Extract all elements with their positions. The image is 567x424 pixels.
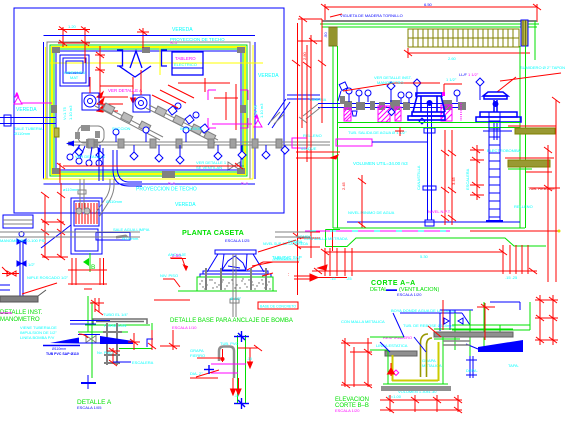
red dims B-B left	[341, 338, 372, 388]
bottom water line	[347, 221, 520, 223]
red dim inside right wall	[235, 84, 237, 130]
svg-text:VOLUMEN UTIL=34.00 m3: VOLUMEN UTIL=34.00 m3	[353, 161, 408, 166]
svg-text:1 1/2": 1 1/2"	[468, 72, 479, 77]
pump1 red riser	[89, 77, 91, 93]
center shaft gray	[232, 254, 234, 317]
right wall pass band lower (rebose)	[505, 158, 554, 172]
magenta pedestal 3	[395, 107, 401, 121]
blue manifold oval	[78, 126, 104, 143]
gray fittings on pipe	[340, 96, 466, 110]
svg-text::: :	[288, 272, 289, 278]
svg-text:ESCALA 1/10: ESCALA 1/10	[172, 325, 197, 330]
svg-text:ESCALERA: ESCALERA	[465, 168, 470, 190]
svg-text:NIV. PISO: NIV. PISO	[160, 273, 178, 278]
svg-text:VER DETALLE 1: VER DETALLE 1	[75, 154, 106, 159]
svg-text:LINEA ESTATICA: LINEA ESTATICA	[376, 343, 408, 348]
svg-text:SUMIDERO Ø 2" TAPON: SUMIDERO Ø 2" TAPON	[520, 65, 565, 70]
blue bracket right	[147, 339, 153, 347]
tank walls yellow	[392, 342, 439, 381]
magenta fragment left	[0, 312, 12, 314]
svg-text:.15: .15	[247, 357, 252, 361]
manometer detail pipe	[17, 232, 26, 297]
svg-text:MANOMETRO: MANOMETRO	[377, 80, 403, 85]
svg-text:.15: .15	[330, 276, 336, 281]
yellow datum drop left	[159, 47, 161, 75]
stemmed valves blue	[338, 78, 484, 103]
svg-text:DIA. 2": DIA. 2"	[190, 371, 203, 376]
svg-text:1.10 m3: 1.10 m3	[68, 105, 73, 120]
detail A green frame verticals	[78, 296, 150, 378]
red line right of band	[508, 125, 556, 127]
svg-text:MAT: MAT	[70, 75, 79, 80]
bottom-left appendage box	[3, 215, 33, 228]
grating band	[408, 29, 519, 47]
manometer base tick	[38, 290, 46, 296]
svg-text:ø110mm: ø110mm	[63, 187, 79, 192]
magenta A marker mid	[254, 115, 262, 127]
svg-text:TAPA.: TAPA.	[508, 363, 519, 368]
boya leader blue	[400, 312, 462, 314]
svg-text:VIGUETA DE MADERA TORNILLO: VIGUETA DE MADERA TORNILLO	[340, 13, 403, 18]
svg-text:IMPULSION: IMPULSION	[180, 126, 202, 131]
blue upper pipe	[70, 320, 110, 322]
blue cross left	[204, 365, 214, 374]
vereda blue verticals	[43, 42, 45, 179]
grating dim	[404, 48, 530, 58]
svg-text:Ø110mm: Ø110mm	[14, 131, 31, 136]
door swing triangle	[130, 51, 142, 68]
red vertical at slab left	[332, 230, 334, 251]
svg-text:Ø110mm: Ø110mm	[52, 347, 66, 351]
svg-text:5.30: 5.30	[420, 254, 429, 259]
svg-text:.15 .25: .15 .25	[505, 275, 518, 280]
door jamb right	[162, 50, 168, 66]
red dims B-B bottom	[380, 395, 462, 413]
svg-text:CON MALLA METALICA: CON MALLA METALICA	[341, 319, 385, 324]
right roof column hatched	[521, 20, 528, 46]
svg-text:SALE AGUA LIMPIA: SALE AGUA LIMPIA	[113, 227, 150, 232]
manometer leader red	[22, 283, 57, 294]
svg-text:TUBO EL 1/4": TUBO EL 1/4"	[103, 312, 129, 317]
main blue header pipe	[318, 104, 465, 108]
blue benchmark bottom	[234, 398, 249, 409]
magenta tick	[442, 92, 445, 96]
elbow hatch	[270, 112, 284, 124]
blue benchmark top	[234, 331, 249, 342]
tapa gray bar	[93, 319, 147, 324]
left tank wall green pair	[332, 46, 334, 228]
B arrow below chamber	[68, 253, 107, 289]
ground line green	[178, 290, 277, 292]
left roof column hatched	[329, 27, 337, 46]
hydro tank outer	[60, 55, 89, 86]
pipes down to chamber	[99, 148, 142, 186]
svg-text:VEREDA: VEREDA	[258, 73, 279, 79]
main header pipe	[68, 139, 330, 148]
central pump assembly	[408, 93, 445, 120]
left red dim column outside	[41, 183, 68, 260]
magenta marker in tank	[393, 370, 398, 375]
red dim cluster right of tank	[95, 46, 230, 103]
blue outer border bottom exit corridor	[14, 212, 284, 214]
valve chamber lower cell	[75, 229, 98, 251]
blue leader to chamber	[41, 225, 71, 248]
ladder rails gray	[103, 323, 122, 365]
roof slab gray line	[322, 20, 537, 22]
svg-text:1.10 m3: 1.10 m3	[259, 103, 264, 118]
svg-text:3.45: 3.45	[451, 176, 456, 185]
blue arrow (viene tuberia)	[50, 338, 79, 344]
chamber flange circles	[76, 208, 82, 214]
pump2 circle	[135, 97, 147, 109]
blue wedge	[100, 336, 133, 344]
tablero electrico box	[172, 52, 203, 75]
roof slab green lines	[320, 23, 539, 25]
magenta inlet box below floor	[336, 139, 372, 146]
valve chamber hatched top	[74, 201, 99, 226]
gray pipe through right	[443, 341, 470, 345]
svg-text:Ø110mm: Ø110mm	[106, 199, 123, 204]
base slab outline	[326, 228, 547, 247]
svg-text:LINEA BOMBA P/V: LINEA BOMBA P/V	[20, 335, 55, 340]
svg-text:ANCLAJE: ANCLAJE	[168, 252, 186, 257]
tank bottom gray band	[381, 386, 451, 391]
svg-text:SE VENTILAN: SE VENTILAN	[196, 165, 222, 170]
blue top-right piping	[440, 302, 520, 331]
svg-text:1/2": 1/2"	[28, 262, 36, 267]
svg-text:▬▬: ▬▬	[386, 287, 398, 293]
vereda bottom blue line	[44, 183, 256, 185]
svg-text:BOMBA: BOMBA	[288, 239, 303, 244]
long red border verticals left of section	[292, 23, 320, 295]
svg-text:CORTE A–A: CORTE A–A	[371, 280, 416, 287]
suction pipe vertical	[423, 105, 436, 226]
svg-text:NIVEL N.P.T.: NIVEL N.P.T.	[428, 209, 451, 214]
svg-text:A: A	[15, 93, 19, 99]
svg-text:ELECTROBOMBA: ELECTROBOMBA	[487, 148, 521, 153]
pump2 red riser	[140, 70, 142, 95]
chamber side outlet	[96, 233, 130, 241]
vereda top blue line	[44, 35, 256, 37]
red dims B-B right	[535, 295, 558, 345]
red dims above caseta	[58, 27, 149, 64]
svg-text:V=1.75: V=1.75	[62, 106, 67, 120]
svg-text:S–1: S–1	[241, 181, 249, 186]
blue funnel filled	[478, 340, 523, 352]
inlet diagonal blue	[380, 313, 426, 352]
red dims far right	[530, 97, 560, 282]
blue pipe lines	[78, 335, 100, 344]
roof projection yellow outline	[43, 45, 253, 179]
inlet valve bowtie gray	[86, 336, 96, 343]
red dim diagonal ticks top right	[152, 85, 238, 120]
svg-text:MANOMETRO: MANOMETRO	[0, 317, 40, 323]
left outside red dims	[298, 16, 326, 258]
right wall pass olive band upper	[515, 128, 555, 134]
red arrow into tank	[428, 300, 495, 340]
magenta dashed detail box	[208, 90, 248, 128]
anchor bolts	[206, 268, 266, 290]
top dimension line	[321, 4, 541, 22]
svg-text:MANOMETRO 0-100 PSI: MANOMETRO 0-100 PSI	[0, 238, 45, 243]
hydro tank mid	[63, 58, 86, 83]
svg-text:PERNOS: PERNOS	[274, 256, 291, 261]
header start arrowhead	[66, 141, 74, 147]
yellow datum line horizontal	[50, 62, 263, 64]
ladder	[486, 112, 503, 222]
svg-text:NIPLE ROSCADO 1/2": NIPLE ROSCADO 1/2"	[27, 275, 69, 280]
blue drain below floor	[372, 141, 427, 143]
right eave green	[534, 21, 536, 60]
under-slab dims	[294, 245, 537, 281]
svg-text:ELECTRICO: ELECTRICO	[174, 62, 197, 67]
discharge diagonal pump2	[146, 105, 218, 143]
magenta nivel line	[305, 230, 450, 232]
small valves below pipe	[352, 109, 425, 125]
plan outer boundary (vereda)	[14, 8, 284, 213]
wall corner pads	[51, 47, 246, 178]
right tank wall green pair	[519, 46, 521, 228]
valve chamber outer	[71, 198, 102, 254]
svg-text:TUB PVC SAP Ø110: TUB PVC SAP Ø110	[46, 352, 79, 356]
magenta meter box	[292, 138, 307, 148]
red arrow cluster ver detalle	[97, 92, 128, 112]
grapa U-channel gray	[219, 347, 234, 379]
right pedestal pump	[476, 92, 521, 122]
svg-text:Ø 1/2": Ø 1/2"	[230, 296, 242, 301]
svg-text:VEREDA: VEREDA	[16, 107, 37, 113]
green ledge outlines	[370, 329, 513, 350]
svg-text:PLANTA CASETA: PLANTA CASETA	[182, 228, 244, 237]
svg-text:DETAL: DETAL	[370, 287, 387, 293]
left wall small port	[54, 128, 59, 137]
blue dim right	[466, 356, 477, 378]
left edge fragments: gray double line	[0, 232, 310, 237]
svg-text:ESCALA 1/05: ESCALA 1/05	[77, 405, 102, 410]
svg-text:ESCALA 1/20: ESCALA 1/20	[335, 408, 360, 413]
caseta wall yellow band	[52, 47, 245, 174]
svg-text:ESCALERA: ESCALERA	[132, 360, 154, 365]
svg-text:CANASTILLA: CANASTILLA	[416, 165, 421, 190]
svg-text:.50: .50	[323, 32, 328, 38]
svg-text:1 1/2": 1 1/2"	[446, 77, 457, 82]
svg-text:CON MALLA METRADA: CON MALLA METRADA	[304, 236, 348, 241]
red pipe top right	[444, 84, 462, 94]
svg-text:PROYECCION DE TECHO: PROYECCION DE TECHO	[170, 37, 225, 42]
header valves below	[67, 127, 289, 166]
svg-text:S–1: S–1	[170, 40, 178, 45]
manometer base	[0, 296, 38, 302]
red leader right	[154, 299, 190, 301]
magenta pedestal 1	[344, 108, 351, 121]
magenta dotted column	[460, 103, 462, 121]
discharge diagonal pump1	[95, 103, 163, 140]
svg-text:LL/F: LL/F	[459, 72, 468, 77]
svg-text:TUBERIA: TUBERIA	[309, 97, 327, 102]
magenta straps	[211, 364, 246, 373]
ground line red right	[470, 230, 560, 232]
red dim bottom band	[57, 163, 243, 183]
outlet elbow rising	[268, 95, 320, 128]
pump anchor: pump body	[200, 250, 271, 277]
svg-text:VEREDA: VEREDA	[172, 27, 193, 33]
svg-text:DEPA.: DEPA.	[466, 368, 478, 373]
chamber feed pipes	[78, 179, 114, 217]
red leader equipment left	[343, 83, 394, 91]
svg-text:PROYECCION DE TECHO: PROYECCION DE TECHO	[136, 187, 197, 193]
svg-text:BASE DE CONCRETO: BASE DE CONCRETO	[260, 305, 296, 309]
roof leader + label	[330, 14, 342, 17]
svg-text:TANQUE: TANQUE	[300, 146, 317, 151]
gray top hatched strips	[385, 332, 513, 356]
door jamb left	[117, 50, 123, 66]
svg-text:1.20: 1.20	[68, 24, 77, 29]
leaders into tank left	[296, 152, 340, 159]
door swing arc V	[119, 66, 151, 77]
overflow tube olive	[421, 334, 433, 377]
svg-text:SUCCION: SUCCION	[112, 126, 131, 131]
benchmark cross	[81, 375, 96, 389]
caseta wall green outer	[50, 45, 247, 176]
svg-text:TABLERO: TABLERO	[175, 56, 196, 61]
svg-text:.25: .25	[346, 276, 352, 281]
svg-text:Nv. PISO: Nv. PISO	[97, 350, 113, 355]
svg-text:S–1: S–1	[168, 181, 176, 186]
svg-text:2.45: 2.45	[341, 181, 346, 190]
svg-text:VEREDA: VEREDA	[175, 202, 196, 208]
svg-text:2.60: 2.60	[448, 56, 457, 61]
hydro tank inner	[66, 61, 83, 73]
svg-text:RELLENO: RELLENO	[303, 133, 322, 138]
red marks below floor	[395, 127, 404, 136]
svg-text:DETALLE BASE PARA ANCLAJE: DETALLE BASE PARA ANCLAJE DE BOMBA	[170, 318, 293, 324]
magenta pedestal 4	[441, 105, 452, 121]
manometer branch valve red	[2, 267, 19, 276]
pump anchor: concrete base stippled	[197, 277, 273, 291]
anchor leaders red	[163, 240, 296, 287]
magenta line to A marker right	[212, 123, 252, 125]
left edge blue pipe fragment	[0, 285, 10, 290]
magenta A marker left	[14, 93, 52, 104]
pump1 circle	[84, 95, 96, 107]
detail A red dims	[79, 298, 180, 366]
green tube verticals	[238, 335, 246, 404]
pump1 square	[82, 93, 99, 110]
pump2 square	[133, 95, 150, 112]
caseta wall gray outer	[47, 42, 250, 179]
svg-text:ESCALA 1/20: ESCALA 1/20	[397, 292, 422, 297]
svg-text:RELLENO: RELLENO	[514, 204, 533, 209]
svg-text:.15: .15	[234, 394, 239, 398]
green pipe lines right	[452, 302, 530, 377]
red marker in tank	[388, 363, 395, 376]
tank walls green	[383, 337, 448, 384]
green frame right	[151, 323, 153, 348]
wall bowtie valve	[228, 162, 240, 170]
red dims	[190, 345, 262, 395]
svg-text:NIVEL MINIMO DE AGUA: NIVEL MINIMO DE AGUA	[348, 210, 395, 215]
svg-text:TUB. PVC: TUB. PVC	[220, 341, 239, 346]
svg-text:ESCALA 1/25: ESCALA 1/25	[225, 238, 250, 243]
caseta wall green inner	[54, 49, 243, 172]
magenta pedestal 2	[378, 106, 390, 122]
blue fittings on diagonal2	[168, 103, 209, 133]
inlet elbow outside wall	[299, 104, 321, 123]
left outside blue walkway lines	[0, 115, 56, 126]
interior red dims	[358, 130, 484, 228]
pump discharge below floor	[483, 122, 512, 140]
base de concreto label boxed	[258, 302, 298, 309]
svg-text:2.80: 2.80	[302, 51, 307, 60]
svg-text:FIERRO: FIERRO	[190, 353, 205, 358]
grapa inner red	[221, 349, 224, 362]
floor green lines	[337, 122, 520, 124]
caseta wall blue inner	[56, 51, 241, 170]
svg-text:VER DETALLE A: VER DETALLE A	[108, 88, 142, 93]
svg-text:6.50: 6.50	[424, 2, 433, 7]
